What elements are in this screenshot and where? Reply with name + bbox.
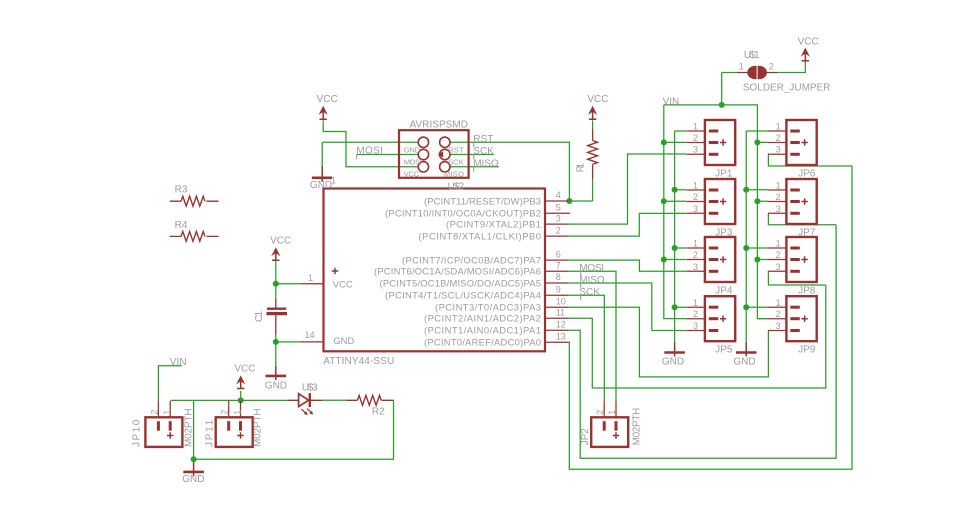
svg-text:2: 2 bbox=[776, 192, 781, 202]
svg-text:12: 12 bbox=[556, 320, 566, 330]
svg-text:ATTINY44-SSU: ATTINY44-SSU bbox=[323, 356, 394, 367]
svg-text:VCC: VCC bbox=[234, 363, 255, 374]
svg-text:R4: R4 bbox=[175, 220, 188, 231]
svg-text:SOLDER_JUMPER: SOLDER_JUMPER bbox=[743, 83, 831, 94]
svg-text:14: 14 bbox=[305, 330, 315, 340]
svg-text:JP10: JP10 bbox=[131, 419, 142, 447]
svg-text:3: 3 bbox=[693, 204, 698, 214]
svg-text:10: 10 bbox=[556, 296, 566, 306]
svg-text:1: 1 bbox=[162, 410, 172, 415]
svg-text:SCK: SCK bbox=[448, 158, 464, 167]
svg-text:RST: RST bbox=[448, 145, 464, 154]
svg-text:2: 2 bbox=[769, 62, 774, 72]
svg-text:2: 2 bbox=[693, 133, 698, 143]
svg-text:(PCINT5/OC1B/MISO/DO/ADC5)PA5: (PCINT5/OC1B/MISO/DO/ADC5)PA5 bbox=[380, 277, 542, 288]
svg-text:JP6: JP6 bbox=[798, 168, 816, 179]
svg-text:GND: GND bbox=[662, 357, 684, 368]
svg-text:3: 3 bbox=[776, 204, 781, 214]
svg-text:(PCINT2/AIN1/ADC2)PA2: (PCINT2/AIN1/ADC2)PA2 bbox=[424, 313, 541, 324]
svg-text:1: 1 bbox=[776, 180, 781, 190]
svg-text:VCC: VCC bbox=[404, 170, 420, 179]
svg-text:7: 7 bbox=[556, 261, 561, 271]
svg-text:M02PTH: M02PTH bbox=[253, 408, 264, 447]
svg-text:(PCINT7/ICP/OC0B/ADC7)PA7: (PCINT7/ICP/OC0B/ADC7)PA7 bbox=[402, 254, 541, 265]
svg-text:3: 3 bbox=[693, 321, 698, 331]
svg-text:GND: GND bbox=[333, 335, 354, 346]
svg-text:2: 2 bbox=[776, 133, 781, 143]
svg-text:2: 2 bbox=[693, 309, 698, 319]
svg-text:R2: R2 bbox=[372, 407, 385, 418]
svg-text:MOSI: MOSI bbox=[404, 158, 422, 167]
svg-text:9: 9 bbox=[556, 284, 561, 294]
svg-text:VCC: VCC bbox=[317, 94, 338, 105]
svg-text:1: 1 bbox=[776, 239, 781, 249]
svg-text:VCC: VCC bbox=[587, 94, 608, 105]
svg-text:MISO: MISO bbox=[473, 158, 499, 169]
svg-text:JP4: JP4 bbox=[715, 285, 733, 296]
svg-text:(PCINT9/XTAL2)PB1: (PCINT9/XTAL2)PB1 bbox=[446, 218, 541, 229]
svg-text:1: 1 bbox=[308, 273, 313, 283]
svg-text:SCK: SCK bbox=[473, 146, 494, 157]
svg-text:JP8: JP8 bbox=[798, 285, 816, 296]
svg-text:GND: GND bbox=[310, 180, 332, 191]
svg-text:MOSI: MOSI bbox=[356, 145, 383, 156]
svg-text:VCC: VCC bbox=[270, 235, 291, 246]
svg-text:U$3: U$3 bbox=[302, 382, 318, 393]
svg-text:R1: R1 bbox=[576, 162, 587, 172]
svg-text:2: 2 bbox=[220, 410, 230, 415]
svg-text:JP9: JP9 bbox=[798, 345, 816, 356]
svg-text:1: 1 bbox=[607, 410, 617, 415]
svg-text:JP7: JP7 bbox=[798, 227, 816, 238]
svg-text:3: 3 bbox=[776, 262, 781, 272]
svg-text:(PCINT1/AIN0/ADC1)PA1: (PCINT1/AIN0/ADC1)PA1 bbox=[424, 325, 541, 336]
svg-text:(PCINT3/T0/ADC3)PA3: (PCINT3/T0/ADC3)PA3 bbox=[435, 302, 541, 313]
svg-text:2: 2 bbox=[556, 225, 561, 235]
svg-text:1: 1 bbox=[331, 175, 336, 185]
svg-text:(PCINT4/T1/SCL/USCK/ADC4)PA4: (PCINT4/T1/SCL/USCK/ADC4)PA4 bbox=[385, 290, 541, 301]
svg-text:U$1: U$1 bbox=[744, 50, 760, 61]
svg-text:GND: GND bbox=[404, 145, 421, 154]
svg-text:VCC: VCC bbox=[333, 279, 353, 290]
svg-text:11: 11 bbox=[556, 308, 565, 318]
svg-text:(PCINT11/RESET/DW)PB3: (PCINT11/RESET/DW)PB3 bbox=[424, 195, 541, 206]
svg-text:1: 1 bbox=[693, 122, 698, 132]
svg-text:M02PTH: M02PTH bbox=[184, 408, 195, 447]
svg-text:13: 13 bbox=[556, 332, 566, 342]
svg-text:3: 3 bbox=[776, 321, 781, 331]
svg-text:3: 3 bbox=[693, 262, 698, 272]
svg-text:GND: GND bbox=[733, 357, 755, 368]
svg-text:JP1: JP1 bbox=[715, 168, 733, 179]
svg-text:AVRISPSMD: AVRISPSMD bbox=[410, 120, 469, 131]
svg-text:VIN: VIN bbox=[663, 96, 680, 107]
svg-text:R3: R3 bbox=[175, 185, 188, 196]
svg-text:VCC: VCC bbox=[798, 36, 819, 47]
svg-text:MOSI: MOSI bbox=[579, 263, 604, 274]
svg-text:2: 2 bbox=[149, 410, 159, 415]
svg-text:6: 6 bbox=[556, 249, 561, 259]
svg-text:(PCINT8/XTAL1/CLKI)PB0: (PCINT8/XTAL1/CLKI)PB0 bbox=[419, 230, 542, 241]
svg-text:1: 1 bbox=[232, 410, 242, 415]
svg-text:1: 1 bbox=[739, 62, 744, 72]
svg-text:M02PTH: M02PTH bbox=[632, 408, 643, 446]
svg-text:RST: RST bbox=[473, 134, 493, 145]
svg-text:1: 1 bbox=[693, 239, 698, 249]
svg-text:(PCINT10/INT0/OC0A/CKOUT)PB2: (PCINT10/INT0/OC0A/CKOUT)PB2 bbox=[385, 208, 541, 219]
svg-text:1: 1 bbox=[693, 298, 698, 308]
svg-text:JP3: JP3 bbox=[715, 227, 733, 238]
svg-text:8: 8 bbox=[556, 272, 561, 282]
svg-text:(PCINT6/OC1A/SDA/MOSI/ADC6)PA6: (PCINT6/OC1A/SDA/MOSI/ADC6)PA6 bbox=[374, 266, 541, 277]
svg-text:4: 4 bbox=[556, 190, 561, 200]
svg-text:2: 2 bbox=[693, 250, 698, 260]
svg-text:1: 1 bbox=[776, 298, 781, 308]
svg-text:2: 2 bbox=[776, 250, 781, 260]
svg-text:3: 3 bbox=[776, 145, 781, 155]
svg-text:GND: GND bbox=[265, 380, 287, 391]
svg-text:5: 5 bbox=[556, 202, 561, 212]
svg-text:3: 3 bbox=[556, 213, 561, 223]
svg-text:2: 2 bbox=[776, 309, 781, 319]
svg-text:1: 1 bbox=[693, 180, 698, 190]
svg-text:1: 1 bbox=[776, 122, 781, 132]
svg-text:GND: GND bbox=[182, 474, 204, 485]
svg-text:2: 2 bbox=[595, 410, 605, 415]
svg-text:C1: C1 bbox=[254, 310, 265, 322]
svg-text:MISO: MISO bbox=[444, 170, 464, 179]
svg-text:3: 3 bbox=[693, 145, 698, 155]
svg-text:2: 2 bbox=[693, 192, 698, 202]
svg-text:JP2: JP2 bbox=[580, 428, 591, 446]
svg-text:VIN: VIN bbox=[170, 357, 187, 368]
svg-text:MISO: MISO bbox=[579, 275, 605, 286]
svg-text:SCK: SCK bbox=[579, 287, 600, 298]
svg-text:(PCINT0/AREF/ADC0)PA0: (PCINT0/AREF/ADC0)PA0 bbox=[424, 337, 541, 348]
svg-text:U$2: U$2 bbox=[448, 181, 465, 192]
svg-text:JP5: JP5 bbox=[715, 345, 733, 356]
